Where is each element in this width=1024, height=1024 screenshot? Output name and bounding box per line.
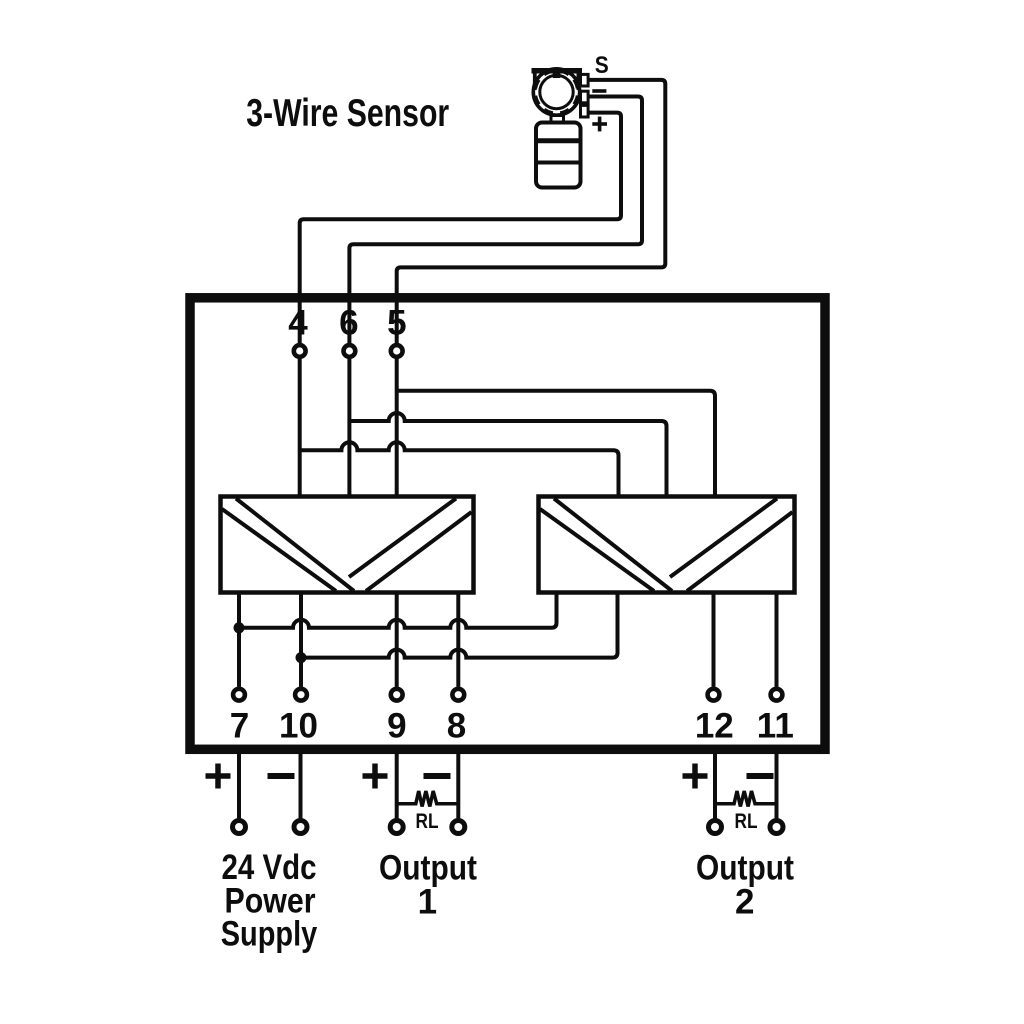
output 1 plus terminal	[390, 821, 403, 834]
wire power supply minus	[299, 754, 303, 818]
wire isolator A out to terminal 8	[456, 593, 460, 687]
svg-text:9: 9	[387, 707, 406, 746]
svg-text:7: 7	[230, 707, 249, 746]
wire isolator A out to terminal 9	[395, 593, 399, 687]
svg-text:4: 4	[288, 303, 308, 342]
label plus (output 2)	[683, 764, 708, 789]
label Output 1	[379, 849, 477, 922]
wire sensor minus to terminal 6	[349, 97, 642, 344]
wire terminal 5 branch to isolator B pin 1	[397, 391, 715, 497]
isolator A	[221, 497, 474, 593]
wire terminal 5 to isolator A	[395, 359, 399, 497]
svg-text:1: 1	[418, 883, 437, 922]
sensor terminal block plus	[581, 105, 589, 117]
terminal 9	[391, 689, 403, 701]
sensor terminal block minus	[581, 91, 589, 103]
sensor TX1 head	[532, 68, 583, 115]
terminal 7	[233, 689, 245, 701]
wire isolator A out to terminal 7	[237, 593, 241, 687]
wire output 2 plus	[713, 754, 717, 818]
wire isolator A out to terminal 10	[299, 593, 303, 687]
isolator B	[539, 497, 795, 593]
wire bus terminal 10 to isolator B supply return	[301, 593, 618, 658]
output 2 minus terminal	[770, 821, 783, 834]
wire bus terminal 7 to isolator B supply	[239, 593, 557, 628]
wire terminal 6 to isolator A	[347, 359, 351, 497]
junction dot on bus at terminal 7 wire	[234, 622, 245, 633]
svg-text:3-Wire Sensor: 3-Wire Sensor	[246, 92, 449, 135]
svg-text:S: S	[595, 52, 609, 79]
wire terminal 4 to isolator A	[298, 359, 302, 497]
sensor terminal block S	[581, 74, 589, 86]
label plus (power)	[206, 764, 231, 789]
wire power supply plus	[237, 754, 241, 818]
svg-text:2: 2	[735, 883, 754, 922]
svg-text:10: 10	[279, 707, 318, 746]
wire isolator B out to terminal 12	[712, 593, 716, 687]
wire terminal 4 branch to isolator B pin 3	[300, 442, 619, 497]
svg-text:Supply: Supply	[221, 915, 318, 954]
svg-text:12: 12	[695, 707, 734, 746]
wire sensor plus to terminal 4	[300, 113, 621, 344]
wire output 1 plus	[395, 754, 399, 818]
power supply minus terminal	[294, 821, 307, 834]
wire output 1 minus	[456, 754, 460, 818]
label plus (sensor)	[592, 117, 607, 132]
resistor RL (output 1)	[397, 791, 459, 807]
terminal 10	[295, 689, 307, 701]
wire output 2 minus	[775, 754, 779, 818]
sensor TX1 body	[536, 116, 581, 188]
label minus (output 2)	[747, 773, 774, 779]
label minus (output 1)	[424, 773, 451, 779]
label plus (output 1)	[363, 764, 388, 789]
svg-text:RL: RL	[416, 810, 439, 833]
wire isolator B out to terminal 11	[775, 593, 779, 687]
label 24 Vdc Power Supply	[221, 848, 318, 954]
svg-text:11: 11	[757, 707, 794, 746]
terminal 5	[391, 345, 403, 357]
terminal 8	[452, 689, 464, 701]
wire terminal 6 branch to isolator B pin 2	[349, 413, 666, 497]
power supply plus terminal	[233, 821, 246, 834]
svg-text:5: 5	[387, 303, 406, 342]
device outline box	[190, 298, 825, 750]
terminal 6	[344, 345, 356, 357]
label minus (sensor)	[592, 89, 606, 93]
label minus (power)	[268, 773, 295, 779]
label Output 2	[696, 849, 794, 922]
terminal 4	[294, 345, 306, 357]
terminal 12	[708, 689, 720, 701]
wire sensor S to terminal 5	[397, 80, 666, 343]
output 2 plus terminal	[709, 821, 722, 834]
junction dot on bus at terminal 10 wire	[296, 652, 307, 663]
terminal 11	[771, 689, 783, 701]
svg-text:6: 6	[339, 303, 358, 342]
output 1 minus terminal	[452, 821, 465, 834]
svg-text:8: 8	[447, 707, 466, 746]
resistor RL (output 2)	[715, 791, 777, 807]
svg-text:RL: RL	[735, 810, 758, 833]
